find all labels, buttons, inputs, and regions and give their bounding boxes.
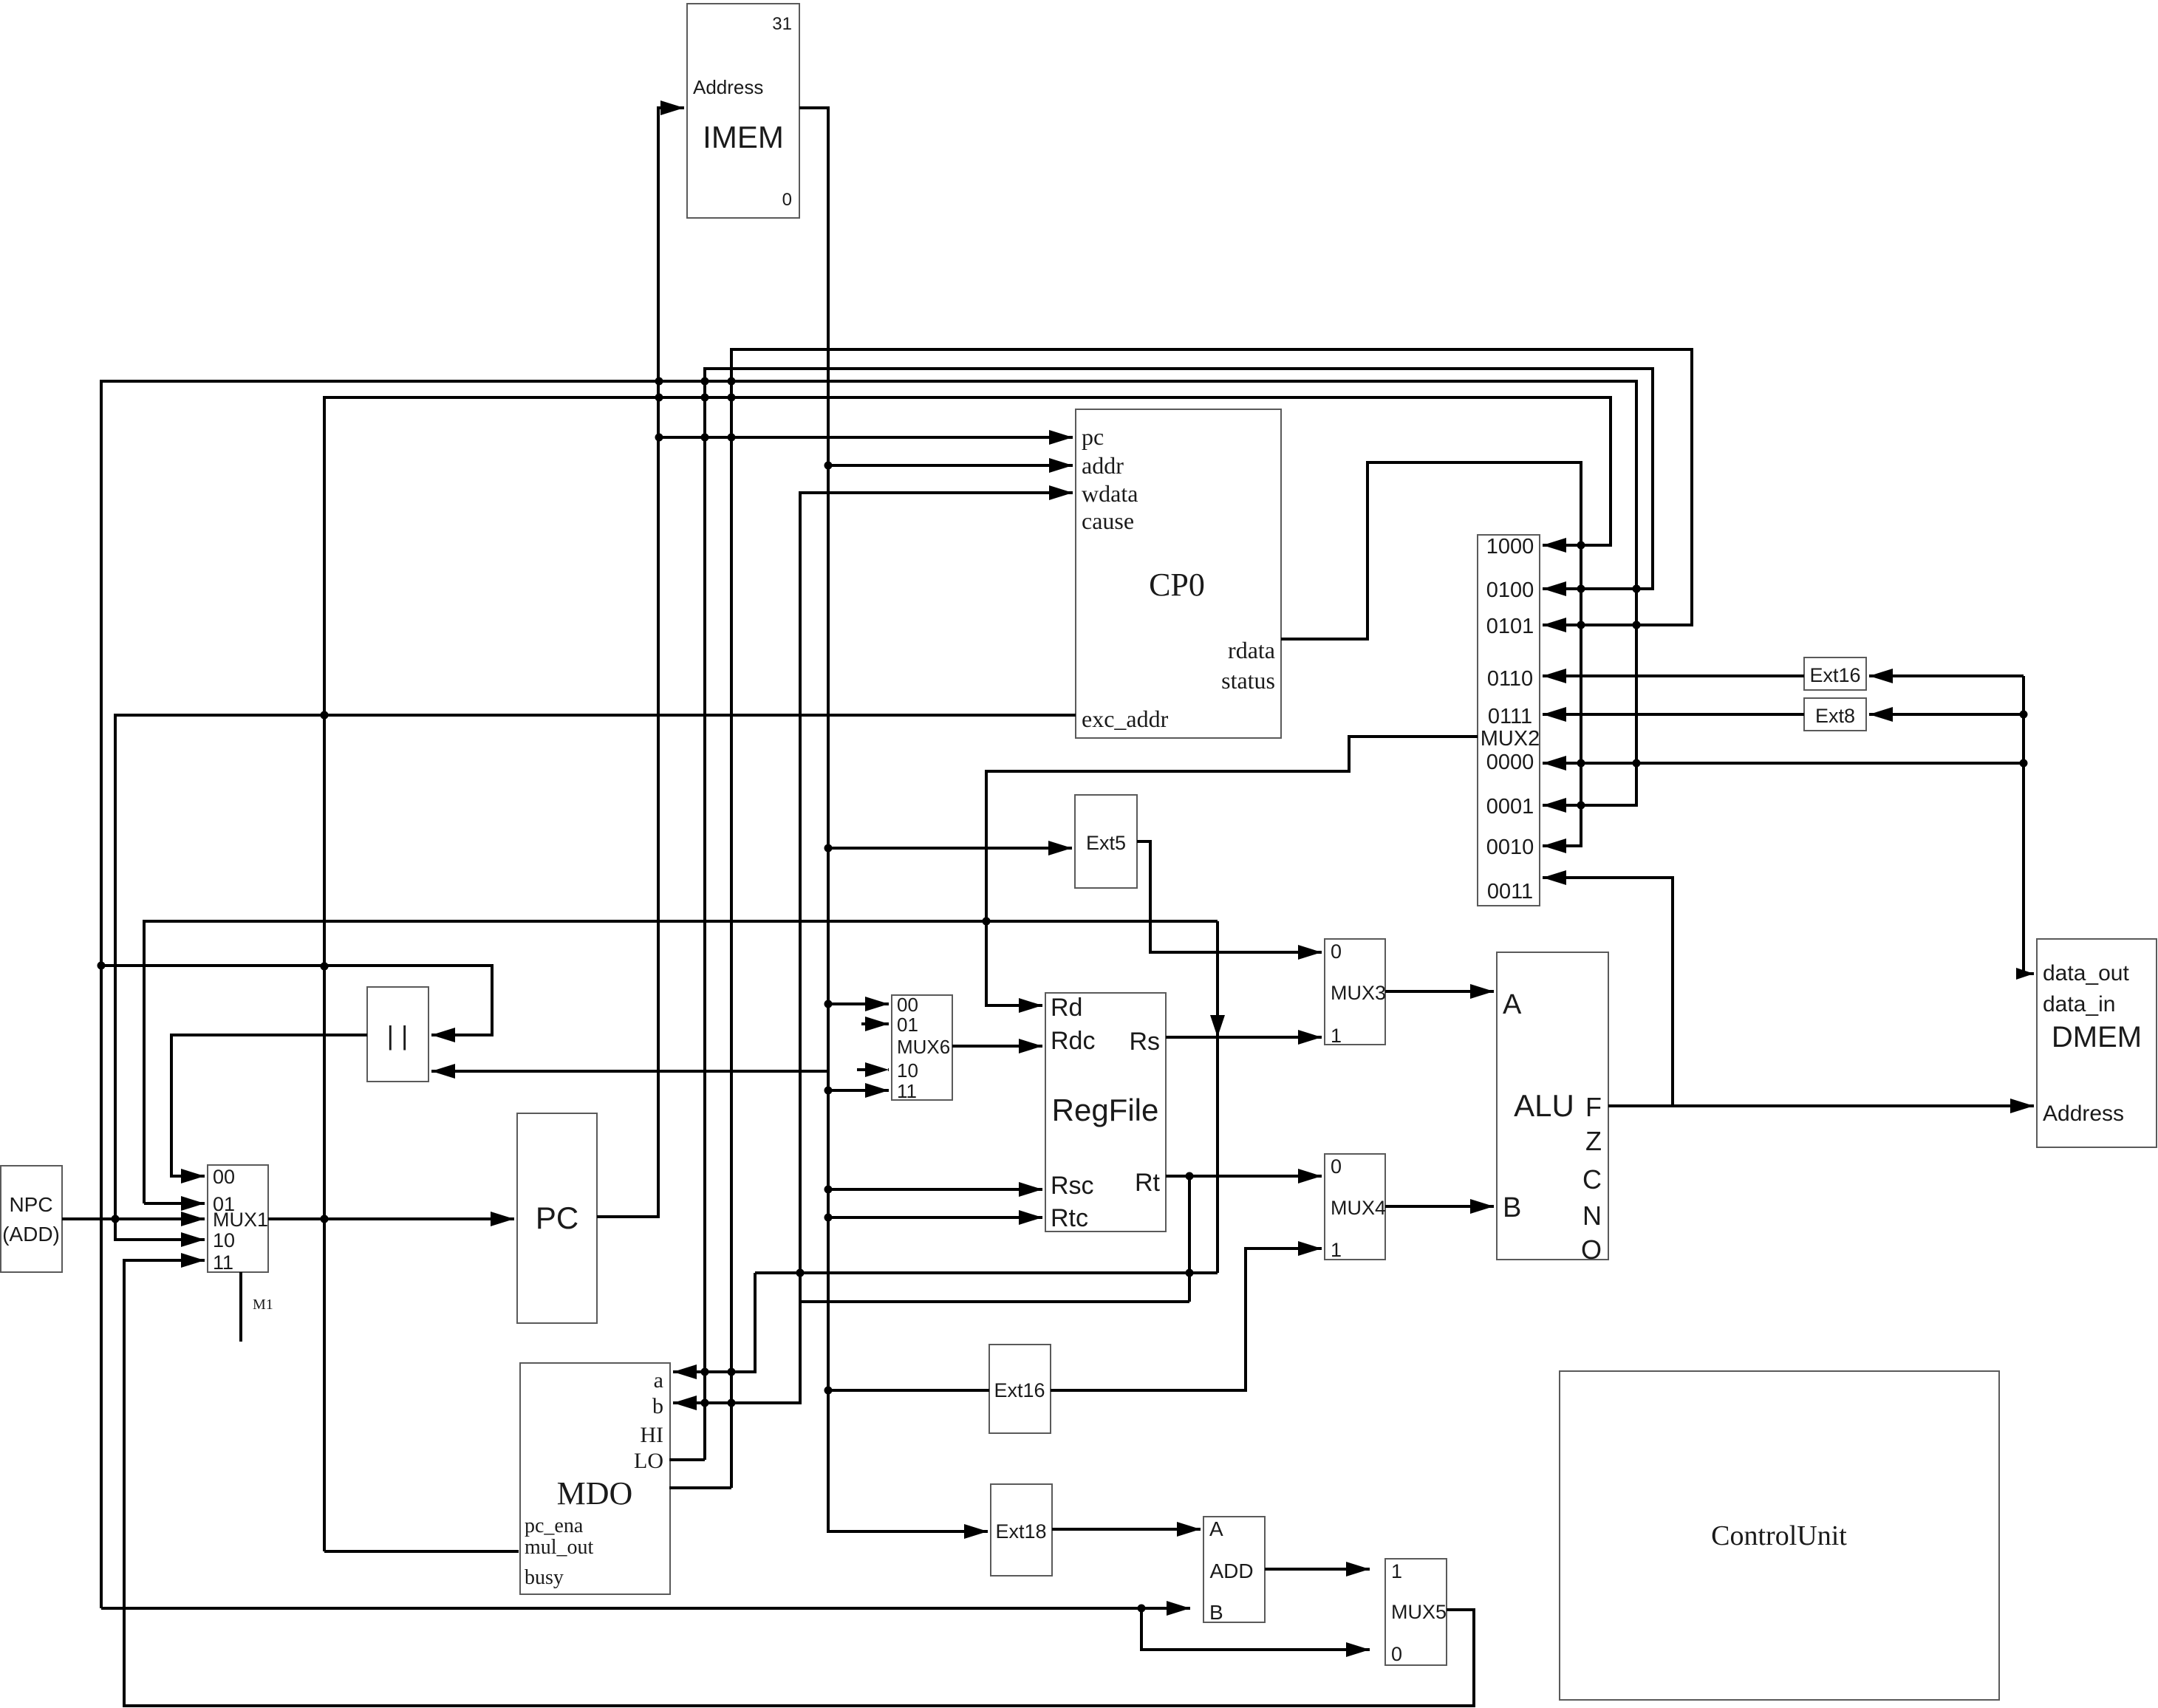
- svg-text:Rs: Rs: [1129, 1028, 1160, 1056]
- junction dots on rdata riser x=2140: [1577, 759, 1585, 768]
- mux MUX5 (branch target select): [1385, 1559, 1447, 1665]
- svg-text:1: 1: [1391, 1560, 1402, 1582]
- wire: MDO LO output riser x=954 band y=499 to MUX2 0100: [669, 1458, 705, 1461]
- block Ext16 (imm extend, ALU path): [989, 1345, 1051, 1433]
- svg-text:Rtc: Rtc: [1051, 1204, 1088, 1232]
- wire: Ext16(mid) input from instruction bus: [828, 1389, 989, 1392]
- wire: || output to MUX1 00: [171, 1035, 367, 1176]
- wire: MUX5 output along bottom to MUX1 11: [124, 1260, 1474, 1706]
- wire: M1 select stub: [239, 1272, 242, 1342]
- block ADD (branch adder): [1203, 1517, 1265, 1622]
- wire: MUX2 output to RegFile Rd: [986, 737, 1478, 1005]
- svg-text:B: B: [1503, 1192, 1521, 1223]
- block CP0 (coprocessor 0): [1076, 409, 1281, 738]
- wire: CP0 rdata output to MUX2 0010: [1281, 462, 1581, 846]
- svg-text:O: O: [1581, 1234, 1602, 1265]
- wire: vertical x=1610 (Rt tap down): [1188, 1176, 1191, 1302]
- svg-text:0111: 0111: [1488, 705, 1532, 728]
- wire: wdata riser from CP0 wdata down to MDO b: [673, 493, 1073, 1403]
- svg-text:IMEM: IMEM: [703, 120, 784, 154]
- svg-text:status: status: [1221, 667, 1275, 694]
- block PC (program counter): [517, 1113, 597, 1323]
- wire: Ext8 input from data_out riser: [1869, 713, 2024, 716]
- down arrow marker where x=1648 crosses Rs line: [1210, 1015, 1225, 1037]
- svg-text:Ext16: Ext16: [994, 1379, 1045, 1401]
- svg-text:rdata: rdata: [1228, 637, 1275, 663]
- svg-text:1: 1: [1331, 1239, 1342, 1261]
- block Ext8 (sign extend, DMEM path): [1804, 698, 1866, 731]
- svg-text:wdata: wdata: [1082, 480, 1138, 507]
- wire: Ext16(mid) output to MUX4 1: [1051, 1248, 1322, 1390]
- block NPC (ADD) next-pc adder: [1, 1166, 62, 1272]
- svg-text:11: 11: [897, 1080, 917, 1102]
- wire: RegFile Rt output to MUX4 0: [1166, 1175, 1322, 1178]
- wire: RegFile Rs output to MUX3 1: [1166, 1036, 1322, 1039]
- svg-text:mul_out: mul_out: [525, 1536, 594, 1559]
- wire: PC output to IMEM Address input: [597, 108, 684, 1217]
- wire: || input (lower) from instruction bus: [431, 1070, 828, 1073]
- svg-text:F: F: [1585, 1092, 1602, 1122]
- wire: NPC output to MUX1: [62, 1217, 205, 1220]
- block Ext16 (sign extend, DMEM path): [1804, 657, 1866, 690]
- svg-text:HI: HI: [640, 1423, 663, 1447]
- mux MUX3 (ALU A select): [1325, 939, 1385, 1045]
- svg-text:pc: pc: [1082, 423, 1104, 450]
- wire: addr input line to CP0: [828, 464, 1073, 467]
- wire: Ext5 input from instruction bus: [828, 847, 1072, 850]
- wire: branch down to MUX5 0: [1141, 1608, 1370, 1650]
- svg-text:Ext5: Ext5: [1086, 832, 1126, 854]
- wire: Ext16 input from data_out riser: [1869, 674, 2024, 677]
- wire: DMEM data_out riser x=2739: [2024, 676, 2034, 974]
- wire: x=195 riser into MUX1 01: [144, 1202, 205, 1205]
- svg-text:Ext16: Ext16: [1809, 664, 1860, 686]
- svg-text:busy: busy: [525, 1566, 564, 1589]
- wire: horizontal y=1762 between risers: [800, 1300, 1189, 1303]
- wire: MUX4 output to ALU B: [1385, 1205, 1494, 1208]
- svg-text:01: 01: [897, 1014, 918, 1036]
- junction dot wdata riser at y=1723: [796, 1269, 805, 1277]
- wire: Rsc input from instruction bus: [828, 1188, 1042, 1191]
- svg-text:11: 11: [213, 1251, 233, 1274]
- svg-text:0100: 0100: [1486, 578, 1534, 602]
- svg-text:0001: 0001: [1486, 795, 1534, 819]
- svg-text:addr: addr: [1082, 452, 1124, 479]
- svg-text:Address: Address: [2043, 1101, 2124, 1126]
- svg-text:LO: LO: [634, 1449, 663, 1473]
- wire: pc input line to CP0: [659, 436, 1073, 439]
- svg-text:a: a: [654, 1368, 663, 1393]
- svg-text:b: b: [652, 1394, 663, 1418]
- wire: Ext16 output to MUX2 0110: [1543, 674, 1804, 677]
- svg-text:1000: 1000: [1486, 535, 1534, 558]
- svg-text:A: A: [1503, 989, 1522, 1020]
- wire: MUX6 01 dangling stub: [861, 1022, 889, 1025]
- svg-text:MUX4: MUX4: [1331, 1197, 1386, 1219]
- junction dots on x=2215 riser: [1633, 585, 1641, 593]
- svg-text:PC: PC: [536, 1200, 578, 1235]
- junction dots on data_out riser: [2020, 711, 2028, 719]
- svg-text:Address: Address: [693, 76, 763, 98]
- wire: riser x=990 to band y=473 down to 0101: [731, 349, 1692, 1488]
- small arrowhead into DMEM data_out: [2016, 968, 2034, 980]
- svg-text:exc_addr: exc_addr: [1082, 706, 1169, 732]
- wire: exc_addr line from x=156 riser to CP0, riser ends at MUX1 10: [115, 715, 1076, 1240]
- wire: net y=1247 from x=195 riser to x=1648: [144, 921, 1218, 1203]
- svg-text:0: 0: [1391, 1643, 1402, 1665]
- wire: data_out to MUX2 0000: [1543, 762, 2024, 765]
- svg-text:M1: M1: [253, 1297, 273, 1313]
- svg-text:DMEM: DMEM: [2052, 1021, 2142, 1053]
- svg-text:ADD: ADD: [1209, 1560, 1253, 1582]
- svg-text:Rdc: Rdc: [1051, 1027, 1095, 1055]
- svg-text:Ext8: Ext8: [1815, 705, 1855, 727]
- junction dots on instruction bus x=1121: [824, 462, 833, 470]
- wire: net y=1307 into || input (upper): [101, 966, 492, 1035]
- svg-text:ALU: ALU: [1514, 1088, 1574, 1123]
- junction dots on 0101 row: [1577, 621, 1585, 629]
- block IMEM (instruction memory): [687, 4, 799, 218]
- svg-text:31: 31: [772, 14, 792, 34]
- svg-text:Rt: Rt: [1135, 1169, 1161, 1197]
- wire: MUX1 output to PC: [268, 1217, 514, 1220]
- junction dots on x=439 riser / y=538 line: [321, 711, 329, 720]
- svg-text:0: 0: [1331, 1155, 1342, 1178]
- svg-text:10: 10: [213, 1229, 235, 1251]
- wire: MUX6 10 dangling dashed stub: [857, 1068, 889, 1071]
- junction dot Rd riser: [983, 918, 991, 926]
- wire: horizontal y=1723 (MDO a net): [755, 1271, 1218, 1274]
- wire: riser x=954 up to band y=499 down to 0100: [705, 369, 1653, 1460]
- junction dot branch to MUX5 0: [1138, 1605, 1146, 1613]
- svg-text:| |: | |: [387, 1020, 409, 1051]
- svg-text:cause: cause: [1082, 508, 1134, 534]
- svg-text:MDO: MDO: [557, 1475, 633, 1511]
- svg-text:pc_ena: pc_ena: [525, 1514, 584, 1537]
- mux MUX6 (reg dst select): [892, 995, 952, 1100]
- block MDO (multiply/divide unit): [520, 1363, 670, 1594]
- wire: Ext8 output to MUX2 0111: [1543, 713, 1804, 716]
- svg-text:(ADD): (ADD): [2, 1223, 60, 1246]
- svg-text:Rd: Rd: [1051, 994, 1082, 1022]
- svg-text:NPC: NPC: [9, 1193, 52, 1216]
- svg-text:0011: 0011: [1487, 880, 1533, 903]
- svg-text:10: 10: [897, 1059, 918, 1082]
- svg-text:Rsc: Rsc: [1051, 1172, 1094, 1200]
- junction dots on 0100 row: [1577, 585, 1585, 593]
- svg-text:0: 0: [1331, 940, 1342, 963]
- block RegFile (register file): [1045, 993, 1166, 1232]
- svg-text:CP0: CP0: [1149, 567, 1205, 603]
- wire: Ext18 output to ADD A: [1052, 1528, 1201, 1531]
- svg-text:MUX1: MUX1: [213, 1209, 268, 1231]
- svg-text:Z: Z: [1585, 1126, 1602, 1156]
- svg-text:0010: 0010: [1486, 836, 1534, 859]
- svg-text:0000: 0000: [1486, 751, 1534, 774]
- svg-text:0101: 0101: [1486, 615, 1534, 638]
- junction dots on pc line: [655, 434, 663, 442]
- svg-text:00: 00: [897, 994, 918, 1016]
- svg-text:C: C: [1582, 1164, 1602, 1195]
- junction dots on exc_addr net: [321, 711, 329, 720]
- svg-text:RegFile: RegFile: [1052, 1093, 1159, 1127]
- svg-text:1: 1: [1331, 1025, 1342, 1047]
- svg-text:MUX5: MUX5: [1391, 1601, 1447, 1623]
- svg-text:ControlUnit: ControlUnit: [1711, 1520, 1847, 1551]
- wire: mul_out stub from riser to MDO: [324, 1550, 519, 1553]
- junction dot y=1723 at wdata riser: [796, 1269, 805, 1277]
- junction dot Rt line: [1186, 1172, 1194, 1181]
- wire: y=2177 net to ADD B: [101, 1607, 1190, 1610]
- svg-text:MUX2: MUX2: [1481, 727, 1540, 751]
- junction dot x=1610 at y=1723: [1186, 1269, 1194, 1277]
- mux MUX4 (ALU B select): [1325, 1154, 1385, 1260]
- wire: Ext5 output to MUX3 0: [1137, 841, 1322, 952]
- block Ext18 (branch offset extend): [991, 1484, 1052, 1576]
- wire: MUX6 00 input from instruction bus: [828, 1002, 889, 1005]
- svg-text:data_in: data_in: [2043, 992, 2115, 1017]
- junction dots on x=990 riser: [728, 1368, 736, 1376]
- svg-text:B: B: [1209, 1601, 1223, 1624]
- svg-text:A: A: [1209, 1517, 1223, 1540]
- svg-text:0: 0: [782, 190, 792, 210]
- block ALU: [1497, 952, 1608, 1260]
- mux MUX1 (next PC select): [208, 1165, 268, 1272]
- wire: MUX1 output riser x=439 band y=538 to MUX2 1000: [324, 397, 1611, 1551]
- arrowhead into CP0 wdata: [1049, 485, 1073, 500]
- svg-text:00: 00: [213, 1166, 235, 1188]
- wire: ADD output to MUX5 1: [1265, 1568, 1370, 1571]
- wire: MUX3 output to ALU A: [1385, 990, 1494, 993]
- block ControlUnit: [1560, 1371, 1999, 1700]
- svg-text:N: N: [1582, 1200, 1602, 1231]
- junction dots on y=1307: [98, 962, 106, 970]
- wire: MUX6 11 input from instruction bus: [828, 1089, 889, 1092]
- junction dots on x=954 riser: [701, 1368, 709, 1376]
- svg-text:0110: 0110: [1487, 667, 1533, 691]
- junction dots on y=516 line: [655, 378, 663, 386]
- svg-text:data_out: data_out: [2043, 961, 2129, 985]
- wire: ALU F output to DMEM Address: [1608, 1104, 2034, 1107]
- wire: net y=516 from x=137 riser to MUX2 0001: [101, 381, 1636, 1608]
- block DMEM (data memory): [2037, 939, 2157, 1147]
- block Ext5 (shamt extend): [1075, 795, 1137, 888]
- wire: corner down to MDO a input: [673, 1273, 755, 1372]
- junction dot y=1247 at Rd riser: [983, 918, 991, 926]
- wire: MDO lower stub riser x=990 band y=473 to MUX2 0101: [669, 1486, 731, 1489]
- svg-text:MUX3: MUX3: [1331, 982, 1386, 1004]
- svg-text:Ext18: Ext18: [995, 1520, 1046, 1543]
- wire: vertical x=1648 from y=1247 net down to y=1723: [1216, 921, 1219, 1273]
- block || (concat unit): [367, 987, 428, 1082]
- wire: branch of F up to MUX2 0011: [1543, 878, 1673, 1106]
- wire: MUX6 output to RegFile Rdc: [952, 1045, 1042, 1048]
- junction dot MUX1 output at x=439: [321, 1215, 329, 1223]
- svg-text:MUX6: MUX6: [897, 1036, 950, 1058]
- mux MUX2 (write-back select): [1478, 535, 1540, 906]
- wire: IMEM instruction output bus (down to Ext18): [799, 108, 988, 1531]
- wire: Rtc input from instruction bus: [828, 1216, 1042, 1219]
